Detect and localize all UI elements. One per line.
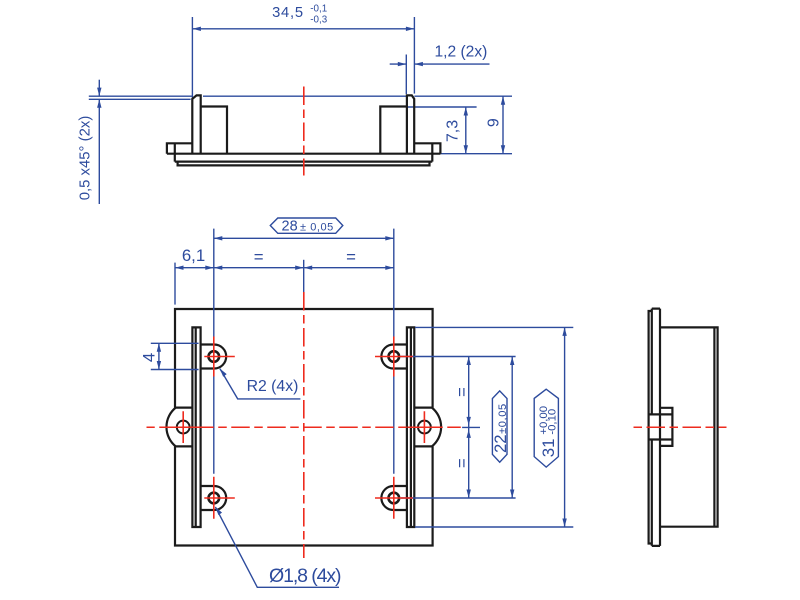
ear top-left: [201, 345, 227, 369]
cross hole top-left: [204, 337, 235, 377]
cross hole mid-left: [166, 411, 200, 443]
svg-text:±0,05: ±0,05: [497, 403, 509, 434]
dimension 1,2 (2x) line with outside arrows: [390, 63, 407, 65]
extension line for 9 (top face): [203, 95, 406, 97]
ear bottom-left: [201, 486, 227, 510]
mid ear left: [166, 408, 192, 447]
svg-text:9: 9: [486, 118, 503, 127]
side view main plate strip: [652, 309, 660, 546]
side view body (tab depth): [660, 327, 718, 526]
svg-text:22: 22: [491, 434, 510, 453]
right tab support block: [380, 107, 407, 154]
svg-text:=: =: [453, 458, 472, 468]
svg-text:7,3: 7,3: [445, 120, 462, 142]
hole bottom-right: [389, 493, 400, 504]
svg-text:-0,10: -0,10: [546, 409, 558, 435]
mid ear right: [414, 408, 441, 447]
svg-text:28: 28: [282, 219, 298, 235]
dimension 9 line: [502, 96, 504, 154]
svg-text:=: =: [346, 247, 356, 266]
svg-text:R2 (4x): R2 (4x): [247, 378, 299, 395]
chamfer dim line with outside arrows: [98, 80, 100, 96]
dimension 31 line: [564, 327, 566, 527]
svg-text:0,5 x45° (2x): 0,5 x45° (2x): [77, 116, 93, 201]
equal spacing dim line top: [214, 267, 394, 269]
side view mid-ear notch: [649, 408, 673, 446]
dimension 31 extension lines: [415, 326, 573, 328]
base plate bottom edge: [175, 161, 433, 163]
top view vertical centerline: [303, 87, 305, 176]
dimension 31 text rotated with tolerance: [538, 406, 559, 457]
equal spacing middle extension line: [303, 260, 305, 297]
leader R2 (4x): [220, 369, 301, 399]
dimension 1,2 (2x) extension line: [405, 55, 407, 95]
svg-text:-0,1: -0,1: [310, 4, 327, 15]
dimension 22 hexagon frame rotated: [492, 391, 507, 462]
hole mid-left: [177, 421, 190, 434]
ear top-right: [381, 345, 407, 369]
svg-text:=: =: [453, 387, 472, 397]
right rail: [407, 327, 414, 527]
dimension 22 extension lines: [401, 356, 516, 358]
hole bottom-left: [209, 493, 220, 504]
extension line bottom shared 7,3 / 9: [440, 153, 512, 155]
extension line top for 7,3: [407, 106, 477, 108]
svg-text:1,2 (2x): 1,2 (2x): [434, 43, 487, 60]
left tab support block: [201, 107, 227, 154]
dimension 28 line: [214, 237, 394, 239]
svg-text:-0,3: -0,3: [310, 14, 327, 25]
dimension 34,5 line: [192, 28, 414, 30]
right tab thin wall with chamfer: [407, 95, 414, 153]
equal spacing center tick: [462, 426, 480, 428]
chamfer dim extension lines: [89, 95, 193, 97]
dimension 4 extension lines: [151, 342, 199, 344]
dimension 7,3 line: [465, 107, 467, 154]
dimension 28 extension line right column: [393, 229, 395, 474]
cross hole top-right: [375, 337, 413, 377]
side view horizontal centerline: [634, 426, 727, 428]
equal spacing vertical dim line: [468, 357, 470, 499]
dimension 28 hexagon frame: [270, 218, 343, 233]
base plate top edge: [167, 153, 441, 155]
left tab thin wall with chamfer: [192, 95, 200, 153]
right step block: [414, 143, 441, 161]
leader dia 1,8 (4x): [215, 507, 339, 587]
svg-text:31: 31: [539, 439, 558, 458]
dimension 34,5 extension line right: [413, 17, 415, 94]
dimension 22 text rotated: [491, 403, 510, 453]
dimension 6,1 line: [175, 267, 214, 269]
left rail (tab seen from above): [192, 327, 200, 527]
svg-text:6,1: 6,1: [182, 246, 205, 265]
dimension 34,5 extension line left: [191, 17, 193, 99]
dimension 22 line: [511, 357, 513, 499]
dimension 28 extension line left column: [213, 229, 215, 474]
side view outer thin strip: [649, 311, 652, 544]
left step block: [167, 143, 192, 161]
dimension 31 hexagon frame rotated: [534, 389, 558, 467]
svg-text:=: =: [254, 247, 264, 266]
svg-text:± 0,05: ± 0,05: [300, 222, 334, 234]
svg-text:34,5: 34,5: [272, 5, 304, 21]
cross hole bottom-right: [375, 477, 413, 519]
svg-text:4: 4: [139, 353, 158, 362]
cross hole mid-right: [407, 411, 441, 443]
hole top-right: [389, 351, 400, 362]
cross hole bottom-left: [204, 477, 235, 519]
dimension 4 line: [158, 343, 160, 369]
main view horizontal centerline: [147, 426, 461, 428]
hole top-left: [209, 351, 220, 362]
base bottom lip: [178, 162, 430, 166]
dimension 6,1 extension line: [174, 263, 176, 305]
ear bottom-right: [381, 486, 407, 510]
plate outline with gaps at mid ears: [175, 309, 433, 546]
main view vertical centerline: [303, 291, 305, 558]
hole mid-right: [418, 421, 431, 434]
svg-text:Ø1,8 (4x): Ø1,8 (4x): [269, 565, 341, 587]
